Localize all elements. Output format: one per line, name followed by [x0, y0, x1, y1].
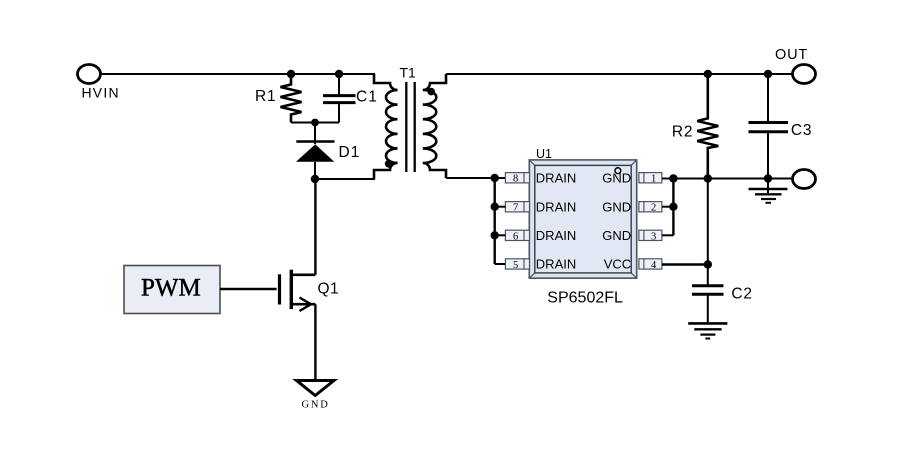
pin 7 box	[505, 202, 529, 214]
node C junction (D1 top)	[311, 119, 319, 127]
PWM block	[124, 266, 220, 314]
svg-text:4: 4	[651, 260, 657, 271]
svg-text:GND: GND	[602, 200, 631, 215]
svg-text:DRAIN: DRAIN	[536, 257, 576, 272]
svg-text:PWM: PWM	[141, 275, 201, 302]
svg-text:5: 5	[513, 260, 518, 271]
wire node A to node B	[291, 73, 339, 75]
primary phase dot	[385, 160, 393, 168]
ground under C3	[749, 179, 788, 203]
svg-text:1: 1	[651, 174, 656, 185]
IC U1 body	[529, 160, 636, 278]
ground GND triangle	[297, 381, 335, 396]
svg-text:OUT: OUT	[775, 47, 808, 63]
svg-text:8: 8	[513, 174, 518, 185]
node B junction	[335, 70, 343, 78]
ground under C2	[688, 323, 727, 338]
node bus1 junction	[669, 174, 677, 182]
node C3 bottom junction	[764, 174, 772, 182]
svg-text:Q1: Q1	[318, 281, 340, 298]
svg-text:6: 6	[513, 231, 518, 242]
pin 1 indicator circle	[615, 168, 621, 174]
svg-text:DRAIN: DRAIN	[536, 200, 576, 215]
node D junction (drain node)	[311, 175, 319, 183]
wire node D to primary bottom	[315, 178, 375, 180]
pin 1 box	[639, 173, 662, 185]
wire secondary bottom to pin 8	[446, 177, 505, 179]
svg-text:GND: GND	[602, 228, 631, 243]
diode D1	[296, 123, 335, 180]
resistor R2	[697, 74, 718, 179]
pin 5 box	[505, 259, 529, 271]
svg-text:T1: T1	[400, 64, 417, 80]
node C3 top junction	[764, 70, 772, 78]
node pin6 junction	[491, 231, 499, 239]
wire right gnd bus	[662, 178, 674, 236]
svg-text:C1: C1	[356, 89, 378, 106]
wire HVIN to node A	[101, 73, 292, 75]
wire left drain bus	[495, 178, 506, 264]
svg-text:U1: U1	[536, 147, 552, 161]
transformer T1 primary winding	[374, 74, 398, 179]
capacitor C2	[692, 286, 724, 323]
capacitor C1	[323, 74, 356, 123]
pin 8 box	[505, 173, 529, 185]
wire secondary top to OUT rail	[446, 73, 793, 75]
svg-text:GND: GND	[302, 399, 330, 410]
node C2 top junction	[704, 260, 712, 268]
wire lower output rail	[662, 178, 793, 180]
svg-text:GND: GND	[602, 171, 631, 186]
secondary phase dot	[427, 88, 435, 96]
wire R2 bottom to C2	[707, 179, 709, 286]
node pin7 junction	[491, 203, 499, 211]
svg-text:DRAIN: DRAIN	[536, 228, 576, 243]
svg-text:VCC: VCC	[604, 257, 631, 272]
node R2 top junction	[704, 70, 712, 78]
wire source to ground	[314, 304, 316, 380]
terminal HVIN	[78, 65, 101, 84]
svg-text:R2: R2	[672, 124, 693, 141]
svg-text:C3: C3	[791, 122, 812, 139]
svg-text:D1: D1	[339, 144, 361, 161]
pin 4 box	[639, 259, 662, 271]
wire node B to transformer primary top	[339, 73, 375, 75]
svg-text:2: 2	[651, 203, 656, 214]
svg-text:3: 3	[651, 231, 656, 242]
svg-text:C2: C2	[731, 285, 752, 302]
transistor Q1	[280, 270, 316, 311]
svg-text:HVIN: HVIN	[82, 85, 120, 101]
node pin2 junction	[669, 203, 677, 211]
node pin8 junction	[491, 174, 499, 182]
pin 6 box	[505, 230, 529, 242]
transformer T1 secondary winding	[423, 74, 446, 178]
svg-text:R1: R1	[255, 88, 276, 105]
wire PWM to gate	[220, 288, 277, 291]
wire pin 4 VCC to C2	[662, 263, 708, 265]
wire R1/C1 bottom bus	[291, 122, 339, 124]
capacitor C3	[749, 74, 789, 179]
terminal OUT return	[793, 170, 816, 189]
svg-text:7: 7	[513, 203, 518, 214]
svg-text:SP6502FL: SP6502FL	[547, 290, 623, 307]
resistor R1	[281, 74, 302, 123]
transformer core	[406, 82, 414, 172]
pin 2 box	[639, 202, 662, 214]
svg-text:DRAIN: DRAIN	[536, 171, 576, 186]
node R2 bottom junction	[704, 174, 712, 182]
pin 3 box	[639, 230, 662, 242]
node A junction	[287, 70, 295, 78]
terminal OUT	[793, 65, 816, 84]
wire drain	[314, 179, 316, 275]
